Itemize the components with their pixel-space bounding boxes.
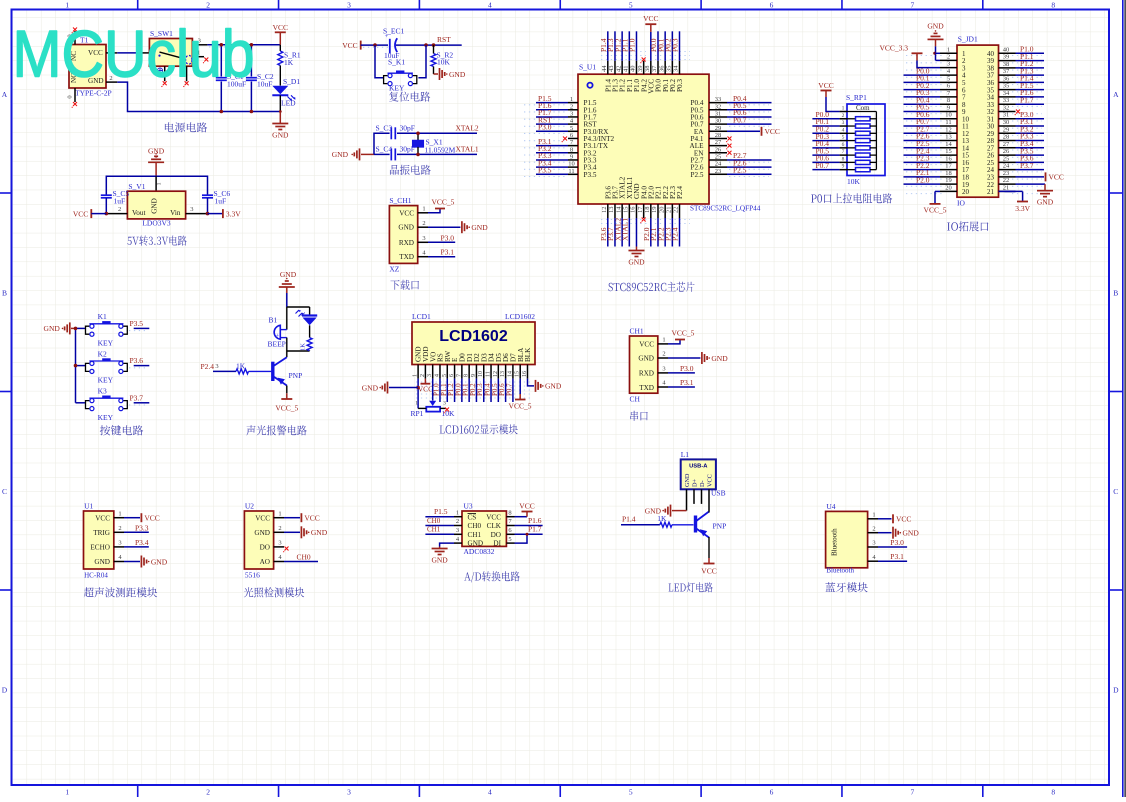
svg-text:32: 32 [1003,104,1010,111]
button K1 KEY [76,312,128,347]
svg-text:3: 3 [190,206,193,213]
svg-text:3: 3 [872,540,875,547]
pin JD1-37 P1.3 [999,66,1045,75]
svg-text:5: 5 [570,125,573,132]
svg-text:1: 1 [456,509,459,516]
svg-text:3: 3 [570,110,573,117]
pin JD1-27 P3.4 [999,139,1045,148]
svg-text:12: 12 [601,207,608,214]
svg-text:VCC: VCC [765,127,780,136]
pin JD1-3 [940,61,957,68]
pin LCD1-2 VDD [420,365,426,379]
svg-text:D: D [1113,686,1119,695]
svg-text:GND: GND [151,198,159,214]
ground GND lcd left [362,382,418,394]
svg-text:P1.4: P1.4 [622,515,636,524]
connector T1 TYPE-C-2P [67,34,112,98]
svg-text:P3.1: P3.1 [890,552,904,561]
svg-text:1uF: 1uF [114,197,126,206]
junction DO DI [526,533,529,536]
svg-text:1K: 1K [657,514,667,523]
pin V1-2 Vout [106,206,127,214]
resistor base 1K alarm [201,362,272,374]
pin U1-26 EN [709,146,732,156]
pin JD1-29 P3.2 [999,124,1045,133]
pin JD1-39 P1.1 [999,52,1045,61]
svg-text:Bluetooth: Bluetooth [831,528,839,556]
svg-text:6: 6 [770,788,774,797]
svg-text:A: A [2,90,8,99]
svg-text:AO: AO [260,558,270,566]
pin JD1-16 P2.3 [904,154,958,163]
svg-text:17: 17 [637,206,644,213]
svg-text:VCC: VCC [701,567,716,576]
svg-text:P1.7: P1.7 [528,525,542,534]
svg-text:38: 38 [644,66,651,73]
pin JD1-30 P3.1 [999,117,1045,126]
svg-text:12: 12 [945,126,952,133]
svg-text:VCC: VCC [73,209,88,218]
pin JD1-35 P1.5 [999,81,1045,90]
LED D2 alarm [296,307,318,325]
svg-text:P3.0: P3.0 [680,364,694,373]
pin U3-1 CS P1.5 [425,507,462,517]
svg-text:R: R [301,312,307,316]
svg-text:KEY: KEY [98,413,114,422]
svg-text:2: 2 [872,525,875,532]
pin U1-5 P3.0/RX [536,122,578,131]
pin JD1-8 P0.4 [904,95,958,104]
svg-text:35: 35 [666,66,673,73]
svg-text:22: 22 [1003,177,1010,184]
svg-text:S_CH1: S_CH1 [389,196,411,205]
svg-text:L1: L1 [681,450,690,459]
svg-text:B1: B1 [269,316,278,325]
svg-text:21: 21 [1003,184,1010,191]
resistor RP1 element 6 P0.4 [812,139,876,150]
crystal S_X1 11.0592M [413,133,456,154]
svg-text:D: D [2,686,8,695]
pin U3-5 DI [506,534,527,543]
svg-text:P3.5: P3.5 [584,171,597,179]
pin U1-17 bottom P4.0 [637,204,646,223]
svg-text:7: 7 [842,149,845,155]
svg-text:29: 29 [1003,126,1010,133]
svg-text:3: 3 [443,401,446,407]
svg-text:3: 3 [456,527,459,534]
svg-text:8: 8 [464,374,470,377]
pin LCD1-10 D3 [476,365,484,403]
pin U1-4 RST [536,115,578,124]
power port VCC power circuit [273,23,288,45]
power port VCC ldo left [73,209,106,218]
svg-text:GND: GND [254,529,270,537]
pin T1-bottom no-connect [72,88,77,108]
svg-text:1K: 1K [236,362,246,371]
junction jd1 gnd pin1 [933,52,936,55]
MCU bottom pin names [604,176,684,199]
pin L1 GND [686,489,688,510]
wire D1 to GND [279,95,281,111]
svg-text:VCC: VCC [519,502,534,511]
pin JD1-21 [999,184,1016,191]
svg-text:CH0: CH0 [297,553,311,562]
pin JD1-32 [999,104,1021,115]
svg-text:31: 31 [715,110,722,117]
wire reset key left [375,45,384,78]
svg-text:S_C4: S_C4 [376,145,393,154]
pin LCD1-16 BLK GND right [528,379,562,392]
svg-text:26: 26 [1003,148,1010,155]
svg-text:K3: K3 [98,387,107,396]
power port 3.3V jd1 pin21 [999,191,1031,212]
pin JD1-17 P2.2 [904,161,958,170]
svg-text:16: 16 [522,371,528,377]
svg-text:15: 15 [945,148,952,155]
svg-text:P0.7: P0.7 [505,383,513,396]
svg-text:5: 5 [947,75,950,82]
svg-text:P3.3: P3.3 [135,523,149,532]
svg-text:44: 44 [601,65,608,72]
svg-text:P3.5: P3.5 [538,166,552,175]
svg-text:6: 6 [449,374,455,377]
svg-text:2: 2 [570,103,573,110]
pin JD1-28 P3.3 [999,132,1045,141]
power port 3.3V ldo right [208,209,242,218]
svg-text:8: 8 [1051,788,1055,797]
resistor RP1 element 9 P0.7 [812,161,876,172]
svg-text:VCC: VCC [399,209,414,217]
svg-text:P0.7: P0.7 [816,161,830,170]
svg-text:VCC_5: VCC_5 [509,402,532,411]
svg-text:STC89C52RC_LQFP44: STC89C52RC_LQFP44 [690,205,761,213]
svg-text:3: 3 [662,366,665,373]
junction key bus K2 [74,364,78,368]
svg-text:Vin: Vin [170,209,181,217]
svg-text:24: 24 [715,161,722,168]
resistor RP1 element 7 P0.5 [812,146,876,157]
pin U1-14 bottom XTAL2 [613,204,622,247]
pin JD1-38 P1.2 [999,59,1045,68]
svg-text:21: 21 [666,207,673,214]
pin JD1-25 P3.6 [999,154,1045,163]
resistor RP1 element 5 P0.3 [812,132,876,143]
pin U3-3 CH1 [425,526,462,535]
svg-text:GND: GND [638,355,654,363]
pin U1-19 bottom P2.1 [649,204,658,247]
module U3 ADC0832 body [462,502,506,557]
pin U1-4 GND ultrasonic [114,554,168,567]
svg-text:VCC: VCC [418,385,433,394]
ground GND crystal [332,148,374,160]
svg-text:P2.4: P2.4 [671,227,680,241]
svg-text:3: 3 [278,540,281,547]
capacitor S_C1 100uF [216,45,246,112]
pin CH1-4 TXD wire P3.1 [418,248,456,257]
capacitor S_EC1 10uF electrolytic [383,27,405,61]
svg-text:1uF: 1uF [215,197,227,206]
wire K3 to P3.7 [130,393,150,403]
pin JD1-10 P0.6 [904,110,958,119]
svg-text:S_C3: S_C3 [376,124,393,133]
pin U3-7 CLK P1.6 [506,516,542,526]
svg-text:GND: GND [449,70,466,79]
svg-text:VCC_5: VCC_5 [924,206,947,215]
power port VCC lcd pin2 [418,379,433,394]
svg-text:11: 11 [486,371,492,377]
svg-text:BLK: BLK [524,347,532,362]
pin CH1-1 VCC_5 serial [658,329,695,344]
pin U4-1 VCC bt [868,512,912,524]
pin T1-1 VCC [106,46,117,53]
svg-text:3.3V: 3.3V [1015,204,1030,213]
svg-text:1: 1 [842,106,845,112]
svg-text:A: A [1113,90,1119,99]
svg-text:P1.6: P1.6 [528,516,542,525]
svg-text:PNP: PNP [713,522,727,531]
svg-text:VCC: VCC [818,81,833,90]
pin U1-24 P2.6 [709,158,772,167]
svg-text:36: 36 [1003,75,1010,82]
svg-text:2: 2 [662,351,665,358]
svg-text:41: 41 [623,66,630,73]
pin U1-3 P1.7 [536,108,578,117]
connector CH1 serial [630,327,658,404]
pin U1-37 top P0.0 [649,31,658,74]
svg-text:S_V1: S_V1 [128,182,145,191]
svg-text:KEY: KEY [98,338,114,347]
pin LCD1-1 GND [413,365,419,379]
pin V1 GND top [156,176,163,191]
svg-text:KEY: KEY [98,376,114,385]
pin U1-1 VCC ultrasonic [114,510,160,522]
svg-text:TRIG: TRIG [93,529,110,537]
svg-text:14: 14 [507,371,513,377]
junction C1 bottom [220,110,224,114]
MCU U1 STC89C52RC body [578,63,761,213]
svg-text:1: 1 [65,1,69,10]
junction crystal bottom [416,153,420,157]
svg-text:CS: CS [468,513,477,521]
pin JD1-14 P2.5 [904,139,958,148]
svg-text:GND: GND [628,258,645,267]
pin JD1-9 P0.5 [904,103,958,112]
svg-text:P3.1: P3.1 [441,248,455,257]
svg-text:5: 5 [508,536,511,543]
svg-text:40: 40 [630,66,637,73]
wire R1 to D1 [279,66,281,86]
svg-text:P2.5: P2.5 [691,171,704,179]
pin U1-13 bottom P3.7 [606,204,615,247]
svg-text:GND: GND [1037,198,1054,207]
pin U1-44 top P1.4 [599,31,608,74]
svg-text:13: 13 [945,134,952,141]
wire reset key right [418,45,426,78]
capacitor S_C5 1uF [101,189,130,214]
pin U2-2 GND light [274,525,328,538]
resistor R alarm 1K [300,325,313,351]
svg-text:1: 1 [570,96,573,103]
svg-text:5: 5 [629,788,633,797]
svg-text:8: 8 [1051,1,1055,10]
resistor base 1K led [621,514,694,527]
pin RP1-1 Com [840,104,877,112]
ground GND ldo [148,147,165,177]
svg-text:2: 2 [206,1,210,10]
pin U1-43 top P1.3 [606,31,615,74]
power port VCC reset [342,41,360,50]
pin LCD1-3 VO [427,365,433,379]
svg-text:3.3V: 3.3V [226,209,241,218]
svg-text:8: 8 [842,156,845,162]
pin JD1-18 P2.1 [904,168,958,177]
svg-text:23: 23 [715,168,722,175]
svg-text:37: 37 [1003,68,1010,75]
svg-text:XTAL1: XTAL1 [621,218,630,241]
svg-text:39: 39 [637,66,644,73]
MCUclub logo watermark [13,17,255,91]
transistor Q1 PNP alarm [273,351,302,393]
pin U1-28 P4.1 [709,132,732,142]
svg-text:CLK: CLK [487,522,502,530]
svg-text:P3.1: P3.1 [680,378,694,387]
svg-text:38: 38 [1003,61,1010,68]
pin U1-2 TRIG P3.3 [114,523,149,532]
resistor RP1 element 2 P0.0 [812,110,876,121]
pin U1-7 P3.1/TX [536,137,578,146]
svg-text:2: 2 [206,788,210,797]
svg-text:7: 7 [456,374,462,377]
svg-text:23: 23 [1003,170,1010,177]
junction C2 bottom [250,110,254,114]
svg-text:28: 28 [715,132,722,139]
svg-text:2: 2 [947,53,950,60]
wire K2 to P3.6 [130,356,150,366]
svg-text:8: 8 [508,509,511,516]
pin CH1-2 GND serial [658,351,701,358]
pin U2-4 AO CH0 [274,553,318,562]
JD1 inside pin numbers [962,50,995,196]
svg-text:VCC: VCC [342,41,357,50]
svg-text:19: 19 [945,177,952,184]
MCU right pin names [690,99,705,179]
svg-text:10uF: 10uF [257,80,272,89]
pin U1-18 bottom P2.0 [642,204,651,247]
svg-text:VCC: VCC [144,514,159,523]
pin LCD1-8 D1 [462,365,470,403]
svg-text:GND: GND [94,558,110,566]
pin U2-1 VCC light [274,510,320,522]
no-connect pot right [444,408,449,414]
svg-text:1: 1 [872,512,875,519]
junction C6 bottom [206,212,210,216]
svg-text:5: 5 [842,135,845,141]
pin JD1-26 P3.5 [999,146,1045,155]
wire buzzer bottom [287,338,310,351]
MCU left pin names [584,99,615,179]
wire crystal lower rail XTAL1 [374,153,477,155]
wire LCD GND pin1 down [417,379,419,409]
svg-text:4: 4 [842,127,845,133]
title IO expansion port [947,221,988,231]
svg-text:10: 10 [945,112,952,119]
junction reset R2 [432,43,436,47]
pin U1-25 P2.7 [709,151,772,160]
svg-text:5: 5 [442,374,448,377]
svg-text:P1.5: P1.5 [434,507,448,516]
svg-text:Bluetooth: Bluetooth [826,567,854,575]
LCD module LCD1 body [412,312,535,365]
resistor RP1 element 8 P0.6 [812,154,876,165]
pin JD1-12 P2.7 [904,124,958,133]
resistor pack bus [875,112,877,170]
svg-text:3: 3 [347,788,351,797]
svg-text:5: 5 [629,1,633,10]
wire key bus [75,328,77,402]
svg-text:20: 20 [945,184,952,191]
svg-text:DI: DI [493,540,501,548]
svg-text:27: 27 [1003,141,1010,148]
pin V1-3 Vin [186,206,208,214]
pin U1-39 top P4.2 [637,58,646,75]
svg-text:U3: U3 [464,502,473,511]
svg-text:9: 9 [947,104,950,111]
svg-text:21: 21 [987,188,995,196]
svg-text:VCC: VCC [643,14,658,23]
svg-text:18: 18 [644,207,651,214]
pin U1-23 P2.5 [709,166,772,175]
pin U1-9 P3.3 [536,151,578,160]
pin JD1-34 P1.6 [999,88,1045,97]
pin U1-8 P3.2 [536,144,578,153]
pin JD1-7 P0.3 [904,88,958,97]
svg-text:39: 39 [1003,54,1010,61]
svg-text:S_RP1: S_RP1 [846,93,867,102]
svg-text:11: 11 [945,119,951,126]
pin U1-38 top VCC [643,14,658,74]
svg-text:10: 10 [478,371,484,377]
svg-text:1: 1 [413,374,419,377]
svg-text:10K: 10K [437,58,451,67]
svg-text:12: 12 [493,371,499,377]
title key circuit [100,425,143,435]
pin JD1-2 [936,53,958,60]
svg-text:30: 30 [715,118,722,125]
pin U1-36 top P0.1 [656,31,665,74]
pin JD1-4 P0.0 [904,66,958,75]
title light detection module [244,587,304,597]
pin U1-35 top P0.2 [664,31,673,74]
svg-text:GND: GND [684,473,691,487]
svg-text:P3.4: P3.4 [135,538,149,547]
svg-text:1: 1 [278,510,281,517]
svg-text:P2.4: P2.4 [676,186,684,199]
module U2 5516 body [244,502,273,580]
svg-text:GND: GND [398,224,414,232]
pin U1-32 P0.5 [709,101,772,110]
svg-text:IO: IO [957,199,965,208]
pin JD1-15 P2.4 [904,146,958,155]
svg-text:40: 40 [1003,46,1010,53]
MCU top pin names [604,79,684,94]
svg-text:16: 16 [945,155,952,162]
svg-text:RXD: RXD [639,370,654,378]
svg-text:P0.3: P0.3 [676,79,684,92]
module U4 Bluetooth body [826,502,868,575]
svg-text:4: 4 [434,374,440,377]
pin LCD1-5 RW [440,365,448,403]
svg-text:20: 20 [962,188,970,196]
